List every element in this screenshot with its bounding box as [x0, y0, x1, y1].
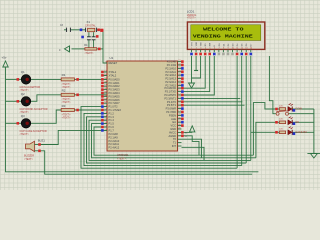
svg-text:+5v: +5v	[2, 56, 7, 60]
label COIN	[295, 107, 302, 111]
push switch	[276, 111, 288, 115]
svg-text:P1.3: P1.3	[109, 115, 115, 119]
svg-text:RW: RW	[210, 43, 212, 46]
svg-text:P1.2: P1.2	[109, 111, 115, 115]
bus wire from U1 left pin y=113.4	[84, 113, 242, 165]
wire U1 to D6 riser	[182, 104, 245, 106]
wire LCD E to U1	[182, 56, 215, 95]
wire to sensor Q2	[6, 100, 22, 102]
svg-text:AGND: AGND	[169, 134, 177, 138]
wire buzzer+ to U1	[39, 130, 107, 144]
crystal X1	[85, 20, 97, 32]
power +5V arrow at U1	[190, 126, 195, 133]
state square at R8 input	[275, 131, 278, 134]
wire C2 leads	[93, 32, 95, 49]
ground at LCD VSS	[189, 83, 195, 88]
svg-text:OK: OK	[295, 120, 299, 124]
wire to sensor Q1	[6, 78, 22, 80]
capacitor C2	[92, 37, 96, 40]
svg-text:EA: EA	[173, 120, 177, 124]
svg-text:P2.4/A12: P2.4/A12	[109, 146, 120, 150]
state square at R4	[98, 48, 101, 51]
U1 part number label	[117, 153, 129, 160]
svg-text:P3.1/TXD: P3.1/TXD	[165, 90, 176, 94]
svg-text:P2.1/A9: P2.1/A9	[109, 135, 119, 139]
wire Q1 to R1	[31, 78, 62, 80]
svg-text:1: 1	[191, 48, 192, 50]
state square at R3 output	[76, 109, 79, 112]
state square at Q3 input	[17, 122, 20, 125]
svg-text:5: 5	[209, 48, 210, 50]
svg-text:P2.0/A8: P2.0/A8	[167, 60, 177, 64]
svg-text:VSS: VSS	[191, 42, 193, 47]
svg-text:COIN: COIN	[295, 107, 302, 111]
svg-text:2: 2	[196, 48, 197, 50]
wire LED ground vertical	[313, 109, 315, 154]
wire riser to LCD D6	[245, 56, 247, 163]
resistor R6	[279, 105, 286, 110]
svg-text:U1: U1	[110, 56, 114, 60]
wire R4 to reset vertical	[97, 48, 103, 50]
wire C1 leads	[88, 32, 90, 49]
svg-text:P3.2/INT0: P3.2/INT0	[164, 93, 176, 97]
bus wire from U1 left pin y=123.6	[92, 124, 256, 158]
state square at R1 output	[76, 78, 79, 81]
capacitor C1	[87, 37, 91, 40]
svg-text:P2.2/A10: P2.2/A10	[109, 139, 120, 143]
state square at D3 cathode	[293, 132, 296, 135]
resistor R7	[279, 119, 286, 124]
svg-text:GND: GND	[170, 127, 176, 131]
bus wire from U1 left pin y=127.0	[94, 127, 253, 155]
wire U1 to D5 riser	[182, 101, 243, 103]
state square at C2	[96, 35, 99, 38]
svg-text:Q3: Q3	[21, 114, 25, 118]
wire XTAL2 stub	[103, 74, 107, 76]
svg-text:12: 12	[241, 48, 243, 50]
svg-text:4: 4	[205, 48, 206, 50]
svg-text:P2.1/A9: P2.1/A9	[167, 63, 177, 67]
svg-text:WELCOME TO: WELCOME TO	[203, 26, 244, 32]
wire XTAL1 stub	[103, 71, 107, 73]
svg-text:P2.3/A11: P2.3/A11	[109, 142, 120, 146]
svg-text:P2.2/A10: P2.2/A10	[165, 66, 176, 70]
label OK	[295, 120, 299, 124]
svg-text:VENDING MACHINE: VENDING MACHINE	[193, 34, 253, 40]
LED D2 (OK)	[288, 117, 293, 125]
svg-text:11: 11	[236, 48, 238, 50]
LCD display LCD1 LM016L	[187, 22, 264, 52]
svg-text:P0.6/AD6: P0.6/AD6	[109, 98, 121, 102]
svg-text:CAKE BU: CAKE BU	[295, 130, 307, 134]
wire feed LED row2	[256, 122, 279, 158]
svg-text:Q2: Q2	[21, 92, 25, 96]
power rail wire from +5V down left side and along bottom	[6, 67, 259, 172]
sensor Q2 (CUP DRINK ACCEPTOR)	[20, 92, 48, 114]
LED D3 (CAKE BU)	[288, 127, 293, 135]
svg-text:RESET: RESET	[109, 61, 118, 65]
wire LED row3 cathode	[292, 131, 314, 133]
svg-text:P3.4/T0: P3.4/T0	[167, 100, 177, 104]
svg-text:P3.5/T1: P3.5/T1	[167, 103, 177, 107]
svg-text:P0.1/AD1: P0.1/AD1	[109, 81, 121, 85]
svg-text:P2.4/A12: P2.4/A12	[165, 73, 176, 77]
wire U1 to D4 riser	[182, 97, 241, 99]
svg-text:P0.0/AD0: P0.0/AD0	[109, 77, 121, 81]
svg-text:R2: R2	[62, 89, 66, 93]
svg-text:R1: R1	[62, 73, 66, 77]
svg-text:<TEXT>: <TEXT>	[85, 52, 95, 55]
svg-text:P1.6: P1.6	[109, 125, 115, 129]
state squares crystal right	[97, 29, 103, 32]
wire riser to LCD D4	[236, 56, 238, 168]
svg-text:XTAL1: XTAL1	[109, 70, 117, 74]
state square at R2 output	[76, 94, 79, 97]
svg-text:VEE: VEE	[201, 42, 203, 47]
wire switch row	[273, 109, 314, 114]
bus wire from U1 left pin y=116.8	[87, 117, 247, 163]
svg-text:P0.7/AD7: P0.7/AD7	[109, 101, 121, 105]
wire U1 to +5V arrow	[182, 131, 193, 133]
wire LCD VEE	[192, 56, 201, 78]
svg-text:P3.3/INT1: P3.3/INT1	[164, 96, 176, 100]
svg-text:BUZ1: BUZ1	[38, 138, 46, 142]
ground (LED cluster)	[307, 154, 320, 159]
svg-text:P1.1/T2EX: P1.1/T2EX	[109, 108, 122, 112]
svg-text:BUZZER: BUZZER	[24, 155, 34, 158]
sensor Q3 (CUP CAKE ACCEPTOR)	[20, 114, 47, 136]
svg-text:<TEXT>: <TEXT>	[187, 16, 197, 19]
svg-text:9: 9	[228, 48, 229, 50]
state squares U1 bottom right pins	[181, 131, 188, 138]
state square at R6 input	[275, 108, 278, 111]
state square crystal left	[80, 29, 83, 32]
LED D1 (COIN)	[288, 103, 293, 111]
state square at Q2 input	[17, 100, 20, 103]
state squares U1 left pins	[101, 71, 104, 132]
op-amp U1 microcontroller AT89C51	[103, 60, 182, 151]
wire LED row1 cathode	[292, 108, 314, 110]
resistor R4 (reset)	[84, 44, 97, 55]
state square at C1	[81, 36, 84, 39]
state square at D2 cathode	[293, 122, 296, 125]
svg-text:P0.5/AD5: P0.5/AD5	[109, 94, 121, 98]
wire ground to R4	[72, 48, 85, 50]
wire LCD RW to U1	[182, 56, 210, 92]
svg-text:P2.0/A8: P2.0/A8	[109, 132, 119, 136]
wire Q2 to R2 with jog	[31, 95, 62, 102]
svg-text:P0.3/AD3: P0.3/AD3	[109, 88, 121, 92]
wire riser to LCD D7	[250, 56, 252, 160]
wire LCD VSS to ground	[191, 56, 193, 83]
power +5V symbol	[2, 56, 9, 67]
wire feed LED row1	[253, 103, 279, 156]
U1 reference label	[110, 56, 114, 60]
svg-text:P0.4/AD4: P0.4/AD4	[109, 91, 121, 95]
buzzer BUZ1	[24, 138, 45, 161]
wire riser to LCD D5	[241, 56, 243, 166]
svg-text:X1: X1	[87, 20, 91, 24]
state squares U1 right pins	[181, 60, 184, 127]
svg-text:LCD1: LCD1	[187, 9, 195, 13]
svg-text:XTAL2: XTAL2	[109, 73, 117, 77]
svg-text:P2.6/A14: P2.6/A14	[165, 80, 176, 84]
capacitor C3 (reset)	[60, 25, 70, 32]
svg-text:PSEN: PSEN	[169, 113, 176, 117]
label CAKE BU	[295, 130, 307, 134]
wire R1 to U1 pin	[74, 78, 107, 80]
svg-text:<TEXT>: <TEXT>	[20, 133, 30, 136]
svg-text:10: 10	[232, 48, 234, 50]
svg-text:P1.4: P1.4	[109, 118, 115, 122]
svg-text:VCC: VCC	[171, 124, 177, 128]
state squares LCD pins	[190, 53, 252, 56]
state square at Q1 input	[17, 78, 20, 81]
svg-text:CRYSTAL: CRYSTAL	[85, 25, 96, 28]
svg-text:7: 7	[219, 48, 220, 50]
svg-text:<TEXT>: <TEXT>	[117, 158, 127, 161]
wire U1 right pin elbow 3	[182, 147, 205, 160]
power symbol at LCD VDD	[194, 70, 198, 72]
wire feed LED row3	[251, 131, 279, 133]
svg-text:P2.5/A13: P2.5/A13	[165, 77, 176, 81]
svg-text:AVCC: AVCC	[169, 130, 176, 134]
bus wire from U1 left pin y=106.6	[81, 107, 237, 169]
LCD1 reference label	[187, 9, 197, 19]
ground (reset resistor)	[59, 46, 70, 52]
svg-text:P1.5: P1.5	[109, 122, 115, 126]
svg-text:R3: R3	[62, 104, 66, 108]
state square at D1 cathode	[293, 109, 296, 112]
wire crystal to U1 via vertical	[97, 30, 107, 63]
svg-text:P3.6/WR: P3.6/WR	[166, 107, 177, 111]
resistor R1	[61, 73, 74, 89]
sensor Q1 (COIN ACCEPTOR)	[20, 70, 41, 92]
svg-text:13: 13	[245, 48, 247, 50]
resistor R2	[61, 89, 74, 105]
svg-text:P2.3/A11: P2.3/A11	[166, 70, 177, 74]
svg-text:3: 3	[200, 48, 201, 50]
svg-text:14: 14	[250, 48, 252, 50]
svg-text:8: 8	[223, 48, 224, 50]
wire R3 to U1 pin	[74, 109, 107, 111]
svg-text:P3.0/RXD: P3.0/RXD	[164, 86, 176, 90]
wire reset-cap to crystal	[64, 29, 67, 31]
wire U1 right pin elbow 1	[182, 136, 200, 155]
svg-text:<TEXT>: <TEXT>	[62, 116, 72, 119]
wire Q3 to R3 with jog	[31, 110, 62, 123]
wire LCD RS to U1	[182, 56, 206, 88]
svg-text:AT89C51: AT89C51	[117, 153, 129, 157]
svg-text:P1.0/T2: P1.0/T2	[109, 105, 119, 109]
wire U1 right pin elbow 2	[182, 139, 202, 158]
wire buzzer- to bottom rail	[39, 151, 252, 174]
svg-text:<TEXT>: <TEXT>	[24, 158, 34, 161]
svg-text:P3.7/RD: P3.7/RD	[166, 110, 176, 114]
wire to sensor Q3	[6, 122, 22, 124]
resistor R3	[61, 104, 74, 120]
svg-text:6: 6	[214, 48, 215, 50]
svg-text:INT: INT	[172, 144, 177, 148]
wire R2 to U1 pin	[74, 94, 107, 96]
state squares buzzer pins	[38, 143, 41, 152]
svg-text:P1.7: P1.7	[109, 128, 115, 132]
resistor R8	[279, 129, 286, 134]
svg-text:P0.2/AD2: P0.2/AD2	[109, 84, 121, 88]
wire LCD VDD to power	[195, 56, 197, 71]
wire crystal row to vertical	[70, 29, 85, 31]
wire LED row2 cathode	[292, 121, 314, 123]
state square at R7 input	[275, 121, 278, 124]
svg-text:VDD: VDD	[196, 41, 198, 46]
bus wire from U1 left pin y=120.2	[89, 120, 251, 160]
wire feed LED row1 from LCD side	[269, 56, 273, 109]
svg-text:ALE: ALE	[171, 117, 176, 121]
svg-text:Q1: Q1	[21, 70, 25, 74]
